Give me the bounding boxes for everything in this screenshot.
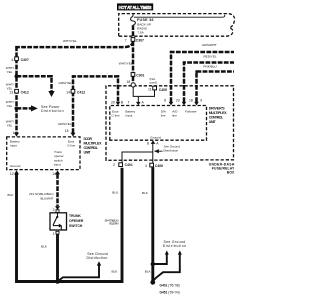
svg-text:OPENER: OPENER — [69, 219, 84, 223]
svg-text:CONTROL: CONTROL — [209, 115, 224, 119]
svg-text:Follower: Follower — [185, 109, 197, 113]
svg-text:BLK: BLK — [112, 270, 119, 274]
ground G401/G451 — [150, 280, 155, 285]
svg-text:12: 12 — [10, 172, 14, 176]
svg-text:18: 18 — [189, 98, 193, 102]
svg-text:input: input — [54, 163, 61, 167]
wire label WHT/YEL — [6, 83, 14, 91]
label: DRIVER'S MULTIPLEX CONTROL UNIT — [209, 106, 228, 124]
svg-text:MULTIPLEX: MULTIPLEX — [84, 142, 103, 146]
svg-text:CONTROL: CONTROL — [84, 146, 99, 150]
wire BLK: left ground run, down then right then up to C401 — [17, 168, 123, 282]
hot at all times label — [117, 3, 153, 10]
wire corner patches — [15, 46, 197, 78]
svg-text:8: 8 — [147, 141, 149, 145]
svg-text:13: 13 — [9, 91, 13, 95]
wire BLK: C406 down to ground G401 — [151, 167, 154, 282]
wire PNK/BLU: right feed into driver's multiplex unit — [197, 72, 235, 103]
svg-text:BLK: BLK — [112, 190, 119, 194]
svg-text:G451 ('99-'04): G451 ('99-'04) — [160, 291, 180, 295]
svg-text:C-line: C-line — [112, 114, 120, 118]
svg-text:C307: C307 — [136, 38, 144, 42]
label: UNDER-DASH FUSE/RELAY BOX — [209, 163, 235, 175]
node: junction on left wire (branch to See Power Distribution arrow) — [15, 74, 19, 78]
door multiplex control unit box — [7, 137, 80, 170]
svg-text:BLK: BLK — [8, 193, 15, 197]
wire: trunk opener switch feed — [56, 174, 59, 206]
wire label WHT/YEL — [6, 120, 14, 128]
svg-text:C406: C406 — [155, 164, 163, 168]
svg-text:11: 11 — [148, 87, 152, 91]
svg-text:DOOR: DOOR — [84, 137, 93, 141]
wire BLK from switch to ground junction — [56, 234, 59, 281]
pin T/A entry — [137, 96, 139, 102]
svg-text:14: 14 — [66, 91, 70, 95]
under-dash fuse box (fuse 36 dashed box) — [119, 14, 235, 37]
svg-text:DRIVER'S: DRIVER'S — [209, 106, 226, 110]
svg-text:C-line: C-line — [67, 144, 75, 148]
wire branch to See Ground Distribution arrow (left) — [58, 265, 100, 281]
svg-text:line: line — [161, 114, 166, 118]
svg-text:1: 1 — [53, 232, 55, 236]
svg-text:2: 2 — [53, 208, 55, 212]
wire WHT/YEL: C307 curve to left horizontal run — [15, 41, 133, 47]
svg-text:WHT/YEL: WHT/YEL — [63, 39, 77, 43]
node: ground junction (left) — [55, 279, 60, 284]
arrow to See Ground Distribution (mid right) — [155, 150, 163, 152]
pin 8/A ground exit of driver's multiplex unit — [151, 140, 156, 144]
svg-text:BOX: BOX — [227, 171, 235, 175]
svg-text:18: 18 — [127, 80, 131, 84]
svg-text:T: T — [128, 100, 130, 104]
svg-text:BLU/WHT: BLU/WHT — [41, 196, 54, 200]
wire GRN/YEL: from C412 pin14 up and over to driver's multiplex pin 20/B — [73, 76, 118, 133]
svg-text:C301: C301 — [136, 73, 144, 77]
svg-text:GRN/WHT: GRN/WHT — [202, 43, 217, 47]
svg-text:UNIT: UNIT — [84, 151, 92, 155]
wire label WHT/YEL — [6, 100, 14, 108]
fuse F36 (FUSE 36 BACK-UP RADIO 7.5A) — [131, 14, 154, 38]
node: cavity 18 circle on fuse/relay box edge — [131, 83, 135, 87]
trunk opener switch S1 — [50, 213, 67, 230]
wire: internal link from cavity 18 to C405 and multiplex pin T/A — [133, 87, 154, 96]
svg-text:4: 4 — [145, 164, 147, 168]
svg-text:YEL: YEL — [7, 70, 13, 74]
svg-text:SWITCH: SWITCH — [69, 224, 83, 228]
svg-text:RED/YEL: RED/YEL — [203, 54, 217, 58]
under-dash fuse/relay box (outer dashed box) — [106, 86, 234, 161]
fuse box internal bus wire — [134, 15, 225, 17]
svg-text:9: 9 — [200, 99, 202, 103]
wire branch to See Ground Distribution arrow 2 — [154, 254, 180, 280]
svg-text:line: line — [172, 114, 177, 118]
svg-text:MULTIPLEX: MULTIPLEX — [209, 111, 228, 115]
svg-text:used): used) — [150, 81, 158, 85]
wire GRN/WHT: right feed into driver's multiplex unit — [171, 52, 234, 102]
svg-text:C412: C412 — [77, 91, 85, 95]
svg-text:Distribution: Distribution — [163, 148, 178, 152]
pin 20/B entry (GRN/YEL wire) — [116, 102, 121, 106]
svg-text:BLK: BLK — [145, 270, 152, 274]
svg-text:WHT/YEL: WHT/YEL — [119, 62, 133, 66]
wire label ('94-'97)(BLK) YEL/GRN — [105, 218, 119, 225]
svg-text:15: 15 — [65, 129, 69, 133]
svg-text:20: 20 — [111, 100, 115, 104]
svg-text:C401: C401 — [125, 163, 133, 167]
svg-text:GRN/YEL: GRN/YEL — [59, 81, 73, 85]
svg-text:Ground: Ground — [150, 135, 161, 139]
wire: ground link to C401 and C406 — [122, 144, 153, 164]
connector C401 pin 2 — [113, 163, 133, 167]
svg-text:8: 8 — [164, 99, 166, 103]
svg-text:UNIT: UNIT — [209, 120, 217, 124]
svg-text:23: 23 — [176, 98, 180, 102]
svg-text:Distribution: Distribution — [41, 109, 64, 113]
svg-text:FUSE 36: FUSE 36 — [137, 18, 154, 22]
wire label WHT/YEL — [6, 66, 14, 74]
connector C307 pin 7 — [125, 38, 144, 43]
connector C301 — [131, 73, 144, 78]
svg-text:BLK: BLK — [41, 244, 48, 248]
driver's multiplex control unit (inner dashed box) — [110, 106, 207, 141]
connector C406 pin 4 — [145, 163, 163, 168]
connector C412 pin 14 (right) — [66, 89, 85, 94]
svg-text:4: 4 — [11, 58, 13, 62]
svg-text:Distribution.: Distribution. — [87, 256, 109, 260]
wire branch to See Ground Distribution arrow 1 — [153, 254, 167, 264]
wire RED/YEL: right feed into driver's multiplex unit — [184, 63, 234, 103]
wire WHT/YEL: C307 down to fuse box cavity 18 — [132, 41, 135, 72]
connector C405 pin 11 — [148, 86, 167, 92]
wire: left vertical WHT/YEL down to door multiplex unit — [15, 46, 18, 133]
wire branch with right arrow to See Power Distribution — [17, 107, 32, 110]
svg-text:G401 ('95-'98): G401 ('95-'98) — [160, 284, 180, 288]
svg-text:HOT AT ALL TIMES: HOT AT ALL TIMES — [119, 5, 152, 10]
wire branch right then down arrow (See Power Distribution) — [17, 76, 52, 91]
svg-text:7: 7 — [125, 38, 127, 42]
svg-text:Distribution: Distribution — [163, 244, 187, 248]
svg-text:C412: C412 — [21, 91, 29, 95]
svg-text:Input: Input — [125, 114, 132, 118]
svg-text:7.5A: 7.5A — [137, 30, 144, 34]
svg-text:C405: C405 — [159, 88, 167, 92]
node: junction for ground distribution arrows — [151, 262, 155, 266]
svg-text:C407: C407 — [21, 58, 29, 62]
svg-text:GRN/YEL: GRN/YEL — [58, 122, 72, 126]
svg-text:2: 2 — [113, 163, 115, 167]
svg-text:Input: Input — [10, 144, 17, 148]
svg-text:PNK/BLU: PNK/BLU — [203, 65, 216, 69]
svg-text:TRUNK: TRUNK — [69, 214, 81, 218]
connector C407 pin 4 — [11, 57, 29, 62]
node: junction on left wire (See Power Distribution) — [15, 106, 19, 110]
connector C412 pin 13 (left) — [9, 89, 28, 94]
label: DOOR MULTIPLEX CONTROL UNIT — [84, 137, 103, 155]
svg-text:YEL: YEL — [7, 104, 13, 108]
svg-text:BLK: BLK — [142, 191, 149, 195]
svg-text:YEL: YEL — [7, 124, 13, 128]
svg-text:YEL/GRN: YEL/GRN — [109, 222, 119, 226]
svg-text:Ground: Ground — [10, 164, 21, 168]
label (Not used) — [150, 77, 158, 84]
